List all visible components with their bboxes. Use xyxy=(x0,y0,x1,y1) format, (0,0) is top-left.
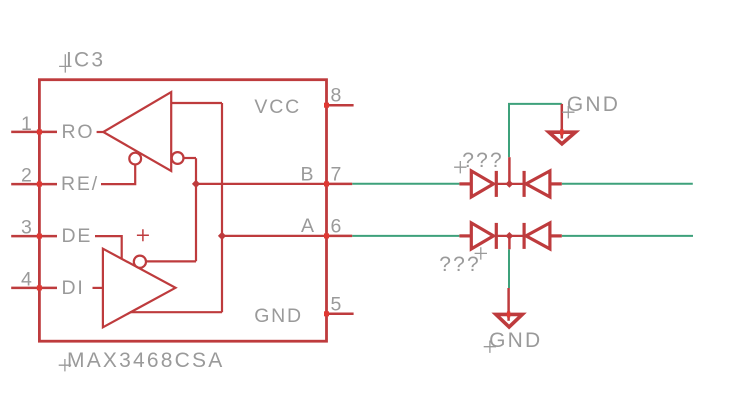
svg-text:1: 1 xyxy=(21,113,34,135)
svg-text:VCC: VCC xyxy=(254,96,301,118)
svg-text:MAX3468CSA: MAX3468CSA xyxy=(67,349,224,372)
svg-text:B: B xyxy=(301,164,316,186)
svg-text:7: 7 xyxy=(331,163,344,185)
svg-text:8: 8 xyxy=(331,85,344,107)
svg-text:GND: GND xyxy=(254,305,303,327)
svg-text:IC3: IC3 xyxy=(66,48,105,71)
svg-text:GND: GND xyxy=(489,329,542,352)
svg-text:???: ??? xyxy=(439,253,481,276)
svg-text:RO: RO xyxy=(62,121,95,143)
svg-text:4: 4 xyxy=(21,268,34,290)
svg-text:DE: DE xyxy=(62,225,93,247)
svg-text:RE/: RE/ xyxy=(61,173,99,195)
svg-text:6: 6 xyxy=(331,215,344,237)
svg-text:2: 2 xyxy=(21,165,34,187)
svg-text:5: 5 xyxy=(331,293,344,315)
svg-text:GND: GND xyxy=(567,93,620,116)
svg-text:DI: DI xyxy=(62,277,85,299)
svg-text:3: 3 xyxy=(21,217,34,239)
svg-text:A: A xyxy=(301,215,316,237)
svg-text:???: ??? xyxy=(462,149,504,172)
